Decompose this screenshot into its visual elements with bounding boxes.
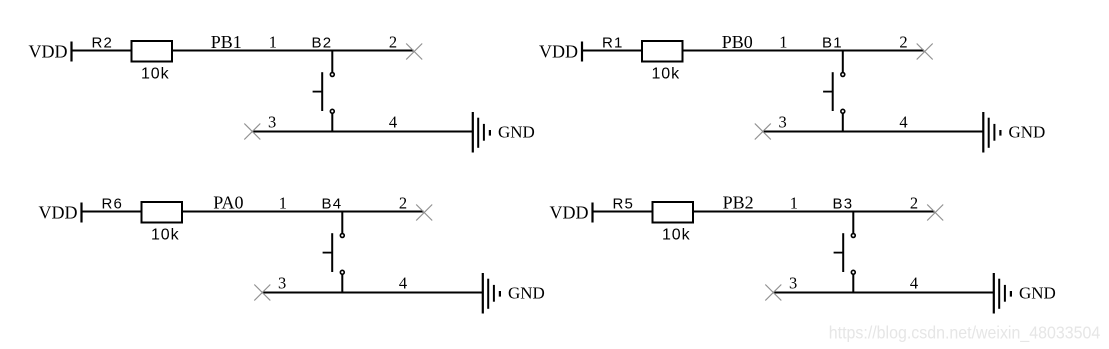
- B4 actuator bar: [331, 233, 333, 272]
- B4 actuator tick: [323, 252, 333, 254]
- resistor R1 body: [642, 41, 683, 62]
- no-connect X at pin 2: [416, 205, 432, 221]
- wire B1 pin 1 drop to contact: [842, 51, 844, 73]
- svg-text:GND: GND: [508, 284, 545, 303]
- svg-text:4: 4: [910, 274, 918, 293]
- svg-text:3: 3: [789, 274, 797, 293]
- B4 bottom contact: [340, 270, 344, 274]
- wire B2 pins 3-4 to GND: [252, 131, 472, 133]
- ground symbol bar 1: [982, 112, 984, 153]
- svg-text:B2: B2: [312, 34, 333, 51]
- B1 top contact: [841, 73, 845, 77]
- svg-text:4: 4: [389, 113, 397, 132]
- wire resistor R5 to pin 2 of B3: [693, 211, 935, 213]
- circuit c2 : VDD pull-up R1 with pushbutton B1 on net PB0: [539, 32, 1045, 153]
- ground symbol bar 4: [1010, 291, 1012, 297]
- wire B3 pins 3-4 to GND: [773, 292, 994, 294]
- no-connect X at pin 2: [406, 44, 422, 60]
- no-connect X at pin 3: [244, 124, 260, 140]
- svg-text:R6: R6: [102, 195, 124, 212]
- B3 top contact: [851, 234, 855, 238]
- svg-text:3: 3: [278, 274, 286, 293]
- ground symbol bar 1: [993, 273, 995, 314]
- svg-text:GND: GND: [498, 123, 535, 142]
- B2 bottom contact: [330, 109, 334, 113]
- svg-text:3: 3: [778, 113, 786, 132]
- svg-text:B3: B3: [833, 195, 854, 212]
- svg-text:VDD: VDD: [29, 42, 68, 62]
- svg-text:4: 4: [899, 113, 907, 132]
- ground symbol bar 1: [472, 112, 474, 153]
- wire VDD to resistor R2: [72, 50, 132, 52]
- no-connect X at pin 2: [927, 205, 943, 221]
- wire resistor R2 to pin 2 of B2: [172, 50, 414, 52]
- B1 actuator bar: [832, 72, 834, 111]
- svg-text:VDD: VDD: [550, 203, 589, 223]
- svg-text:2: 2: [399, 194, 407, 213]
- wire resistor R6 to pin 2 of B4: [182, 211, 424, 213]
- svg-text:10k: 10k: [652, 65, 681, 82]
- svg-text:1: 1: [779, 33, 787, 52]
- wire B4 pins 3-4 to GND: [262, 292, 483, 294]
- svg-text:PB2: PB2: [723, 193, 754, 213]
- wire resistor R1 to pin 2 of B1: [683, 50, 925, 52]
- svg-text:R1: R1: [602, 34, 624, 51]
- ground symbol bar 4: [489, 130, 491, 136]
- B3 actuator tick: [834, 252, 844, 254]
- ground symbol bar 3: [993, 124, 995, 141]
- svg-text:1: 1: [279, 194, 287, 213]
- ground symbol bar 3: [493, 285, 495, 302]
- wire B1 pins 3-4 to GND: [763, 131, 984, 133]
- svg-text:10k: 10k: [151, 226, 180, 243]
- svg-text:GND: GND: [1019, 284, 1056, 303]
- wire B3 pin 1 drop to contact: [852, 212, 854, 234]
- B1 actuator tick: [823, 91, 833, 93]
- no-connect X at pin 3: [755, 124, 771, 140]
- wire B4 pin 1 drop to contact: [341, 212, 343, 234]
- svg-text:4: 4: [399, 274, 407, 293]
- ground symbol bar 3: [1004, 285, 1006, 302]
- svg-text:B1: B1: [822, 34, 843, 51]
- ground symbol bar 1: [482, 273, 484, 314]
- wire VDD to resistor R1: [582, 50, 642, 52]
- ground symbol bar 2: [487, 279, 489, 309]
- svg-text:VDD: VDD: [539, 42, 578, 62]
- ground symbol bar 4: [499, 291, 501, 297]
- B3 actuator bar: [842, 233, 844, 272]
- resistor R6 body: [142, 202, 183, 223]
- wire B4 contact to pin 3/4 rail: [341, 275, 343, 293]
- ground symbol bar 2: [998, 279, 1000, 309]
- svg-text:2: 2: [899, 33, 907, 52]
- wire VDD to resistor R6: [82, 211, 142, 213]
- svg-text:GND: GND: [1009, 123, 1046, 142]
- wire B2 contact to pin 3/4 rail: [331, 114, 333, 132]
- B4 top contact: [340, 234, 344, 238]
- svg-text:https://blog.csdn.net/weixin_4: https://blog.csdn.net/weixin_48033504: [829, 323, 1100, 343]
- no-connect X at pin 2: [917, 44, 933, 60]
- VDD power port bar: [591, 203, 593, 223]
- svg-text:PB0: PB0: [722, 32, 753, 52]
- svg-text:10k: 10k: [141, 65, 170, 82]
- ground symbol bar 2: [988, 118, 990, 148]
- B2 actuator bar: [321, 72, 323, 111]
- ground symbol bar 3: [483, 124, 485, 141]
- svg-text:2: 2: [910, 194, 918, 213]
- svg-text:PB1: PB1: [211, 32, 242, 52]
- B3 bottom contact: [851, 270, 855, 274]
- VDD power port bar: [70, 42, 72, 62]
- wire VDD to resistor R5: [593, 211, 653, 213]
- svg-text:R2: R2: [92, 34, 114, 51]
- resistor R5 body: [653, 202, 694, 223]
- svg-text:3: 3: [268, 113, 276, 132]
- svg-text:1: 1: [790, 194, 798, 213]
- circuit c4 : VDD pull-up R5 with pushbutton B3 on net PB2: [550, 193, 1056, 314]
- wire B2 pin 1 drop to contact: [331, 51, 333, 73]
- wire B1 contact to pin 3/4 rail: [842, 114, 844, 132]
- circuit c1 : VDD pull-up R2 with pushbutton B2 on net PB1: [29, 32, 535, 153]
- VDD power port bar: [581, 42, 583, 62]
- no-connect X at pin 3: [254, 285, 270, 301]
- svg-text:VDD: VDD: [39, 203, 78, 223]
- svg-text:R5: R5: [613, 195, 635, 212]
- svg-text:2: 2: [389, 33, 397, 52]
- ground symbol bar 2: [477, 118, 479, 148]
- B2 actuator tick: [313, 91, 323, 93]
- no-connect X at pin 3: [765, 285, 781, 301]
- svg-text:10k: 10k: [662, 226, 691, 243]
- svg-text:B4: B4: [322, 195, 343, 212]
- resistor R2 body: [132, 41, 173, 62]
- svg-text:PA0: PA0: [213, 193, 243, 213]
- ground symbol bar 4: [999, 130, 1001, 136]
- svg-text:1: 1: [269, 33, 277, 52]
- circuit c3 : VDD pull-up R6 with pushbutton B4 on net PA0: [39, 193, 545, 314]
- B2 top contact: [330, 73, 334, 77]
- VDD power port bar: [80, 203, 82, 223]
- wire B3 contact to pin 3/4 rail: [852, 275, 854, 293]
- B1 bottom contact: [841, 109, 845, 113]
